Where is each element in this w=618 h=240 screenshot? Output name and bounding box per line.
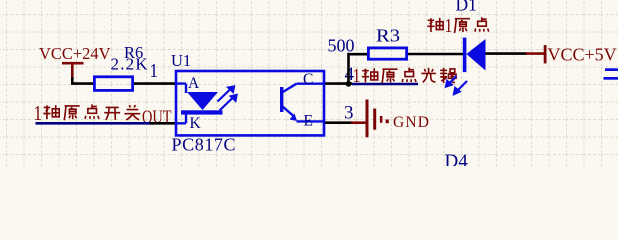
- junction node: [346, 81, 352, 87]
- component fragment at right edge: [604, 68, 618, 79]
- svg-text:500: 500: [328, 36, 355, 56]
- wire power to R6: [72, 77, 93, 84]
- wire R6 to U1 pin A: [134, 82, 176, 85]
- svg-text:1: 1: [34, 101, 43, 125]
- svg-text:K: K: [190, 115, 202, 132]
- power port VCC+24V: [39, 44, 111, 78]
- svg-text:E: E: [304, 113, 313, 130]
- power port VCC+5V: [526, 45, 617, 65]
- D1 emission arrows: [446, 76, 467, 94]
- svg-text:VCC+24V: VCC+24V: [39, 44, 111, 63]
- svg-text:VCC+5V: VCC+5V: [548, 45, 617, 65]
- optocoupler U1 box: [176, 71, 324, 135]
- net label 1轴原点开关: [34, 101, 172, 128]
- svg-text:OUT: OUT: [142, 107, 172, 128]
- phototransistor inside U1: [280, 84, 324, 122]
- svg-text:GND: GND: [393, 114, 430, 131]
- pin K stub: [150, 122, 176, 125]
- svg-text:2.2K: 2.2K: [111, 55, 149, 74]
- svg-text:C: C: [303, 71, 313, 88]
- svg-text:PC817C: PC817C: [172, 135, 237, 155]
- LED D1: [463, 38, 486, 73]
- wire D1 to VCC+5V: [486, 52, 528, 55]
- resistor R3: [328, 26, 407, 60]
- svg-text:R3: R3: [376, 26, 400, 46]
- LED inside U1: [177, 84, 223, 124]
- ground GND: [351, 100, 430, 138]
- svg-text:1: 1: [150, 60, 159, 82]
- wire junction up to R3: [349, 54, 368, 83]
- wire R3 to D1: [408, 53, 464, 56]
- wire U1 pin C to junction: [325, 82, 352, 85]
- wire under net label 1轴原点光耦: [352, 83, 418, 86]
- LED emission arrows: [218, 87, 237, 111]
- svg-text:1: 1: [353, 65, 361, 87]
- svg-text:D4: D4: [445, 151, 469, 166]
- wire net label to U1 pin K: [36, 122, 155, 125]
- resistor R6: [94, 43, 158, 90]
- svg-text:1: 1: [445, 15, 453, 37]
- svg-text:U1: U1: [171, 51, 191, 70]
- net label 1轴原点光耦: [353, 65, 457, 87]
- svg-text:3: 3: [344, 103, 354, 124]
- svg-text:D1: D1: [456, 0, 477, 15]
- annotation 轴1原点: [427, 15, 488, 37]
- wire U1 pin E to GND: [325, 121, 352, 124]
- svg-text:A: A: [188, 75, 200, 92]
